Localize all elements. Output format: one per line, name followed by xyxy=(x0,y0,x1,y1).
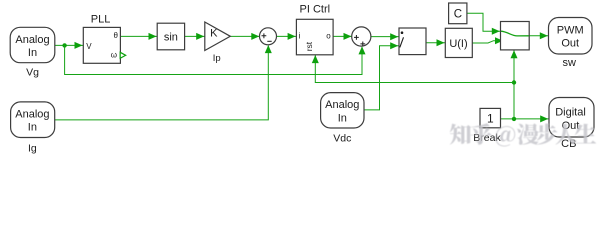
block Analog In (Vg) xyxy=(10,27,55,62)
block PI Ctrl xyxy=(296,19,333,55)
wire gain K output to Sum1 plus input xyxy=(230,35,259,37)
wire constant C to switch input 1 xyxy=(467,13,501,31)
svg-text:Out: Out xyxy=(561,38,579,50)
svg-text:Ip: Ip xyxy=(213,53,221,64)
wire PLL theta output to sin input xyxy=(120,35,157,37)
svg-text:Vg: Vg xyxy=(26,66,39,78)
svg-text:PLL: PLL xyxy=(91,14,111,26)
block PWM Out xyxy=(549,18,593,55)
block constant C xyxy=(449,3,467,24)
svg-text:Ig: Ig xyxy=(28,142,37,154)
sum junction Sum2 xyxy=(352,27,371,46)
wire switch output to PWM Out input xyxy=(529,35,548,37)
block PLL xyxy=(83,27,120,63)
svg-text:Digital: Digital xyxy=(555,107,586,119)
unconnected output arrow PLL omega xyxy=(120,52,126,58)
sign plus Sum2 bottom xyxy=(360,42,365,47)
sign plus Sum2 left xyxy=(354,35,359,40)
junction Break signal xyxy=(512,117,516,121)
sign minus Sum1 bottom xyxy=(267,40,271,42)
svg-text:o: o xyxy=(326,32,331,41)
svg-text:C: C xyxy=(454,8,462,20)
wire Break signal riser to switch control input xyxy=(513,50,515,119)
junction Break to rst branch xyxy=(512,80,516,84)
sign plus Sum1 left xyxy=(262,33,267,38)
wire Vg feedforward branch to Sum2 bottom input xyxy=(65,45,362,74)
svg-text:Analog: Analog xyxy=(15,109,49,121)
svg-text:Analog: Analog xyxy=(15,34,49,46)
block constant 1 (Break) xyxy=(480,108,501,127)
svg-text:sw: sw xyxy=(562,57,576,69)
block Digital Out xyxy=(549,98,594,138)
wire Ig output to Sum1 minus input xyxy=(55,46,269,120)
svg-text:θ: θ xyxy=(114,31,119,40)
wire divide output to U(I) input xyxy=(426,42,445,44)
wire Sum2 output to divide numerator input xyxy=(371,36,399,38)
svg-text:PWM: PWM xyxy=(557,24,584,36)
block Analog In (Ig) xyxy=(11,102,55,138)
wire U(I) output to switch input 2 xyxy=(472,41,500,43)
svg-text:sin: sin xyxy=(164,31,178,43)
block U(I) lookup xyxy=(445,28,472,57)
block divide (product) xyxy=(399,28,426,55)
block sin xyxy=(157,23,184,50)
wire Vdc output to divide denominator input xyxy=(364,46,399,110)
svg-text:In: In xyxy=(28,47,37,59)
wire Vg output to PLL V input xyxy=(55,44,84,46)
block Analog In (Vdc) xyxy=(321,93,364,128)
block switch xyxy=(501,22,530,50)
sum junction Sum1 xyxy=(260,28,277,45)
svg-text:i: i xyxy=(299,32,301,41)
junction Vg branch xyxy=(62,43,66,47)
watermark zhihu xyxy=(450,123,596,146)
switch glyph selector line xyxy=(501,31,529,36)
svg-text:ω: ω xyxy=(111,50,117,59)
svg-text:1: 1 xyxy=(487,111,494,125)
svg-text:PI Ctrl: PI Ctrl xyxy=(300,3,331,15)
wire constant 1 Break to Digital Out input xyxy=(501,118,550,120)
svg-text:V: V xyxy=(86,42,92,51)
svg-text:Vdc: Vdc xyxy=(333,133,351,145)
wire Break signal to PI Ctrl rst input xyxy=(315,55,514,83)
wire sin output to gain K input xyxy=(185,35,205,37)
svg-text:U(I): U(I) xyxy=(449,38,467,50)
svg-text:In: In xyxy=(338,112,347,124)
svg-text:CB: CB xyxy=(561,138,576,150)
gain block K (Ip) xyxy=(205,22,231,51)
svg-text:Analog: Analog xyxy=(325,99,359,111)
divide glyph slash xyxy=(400,37,404,47)
svg-text:In: In xyxy=(28,122,37,134)
svg-text:rst: rst xyxy=(304,41,314,51)
wire PI Ctrl o output to Sum2 plus input xyxy=(333,35,352,37)
wire Sum1 output to PI Ctrl i input xyxy=(277,35,297,37)
svg-text:K: K xyxy=(210,27,218,39)
divide glyph multiply dot xyxy=(401,31,404,34)
